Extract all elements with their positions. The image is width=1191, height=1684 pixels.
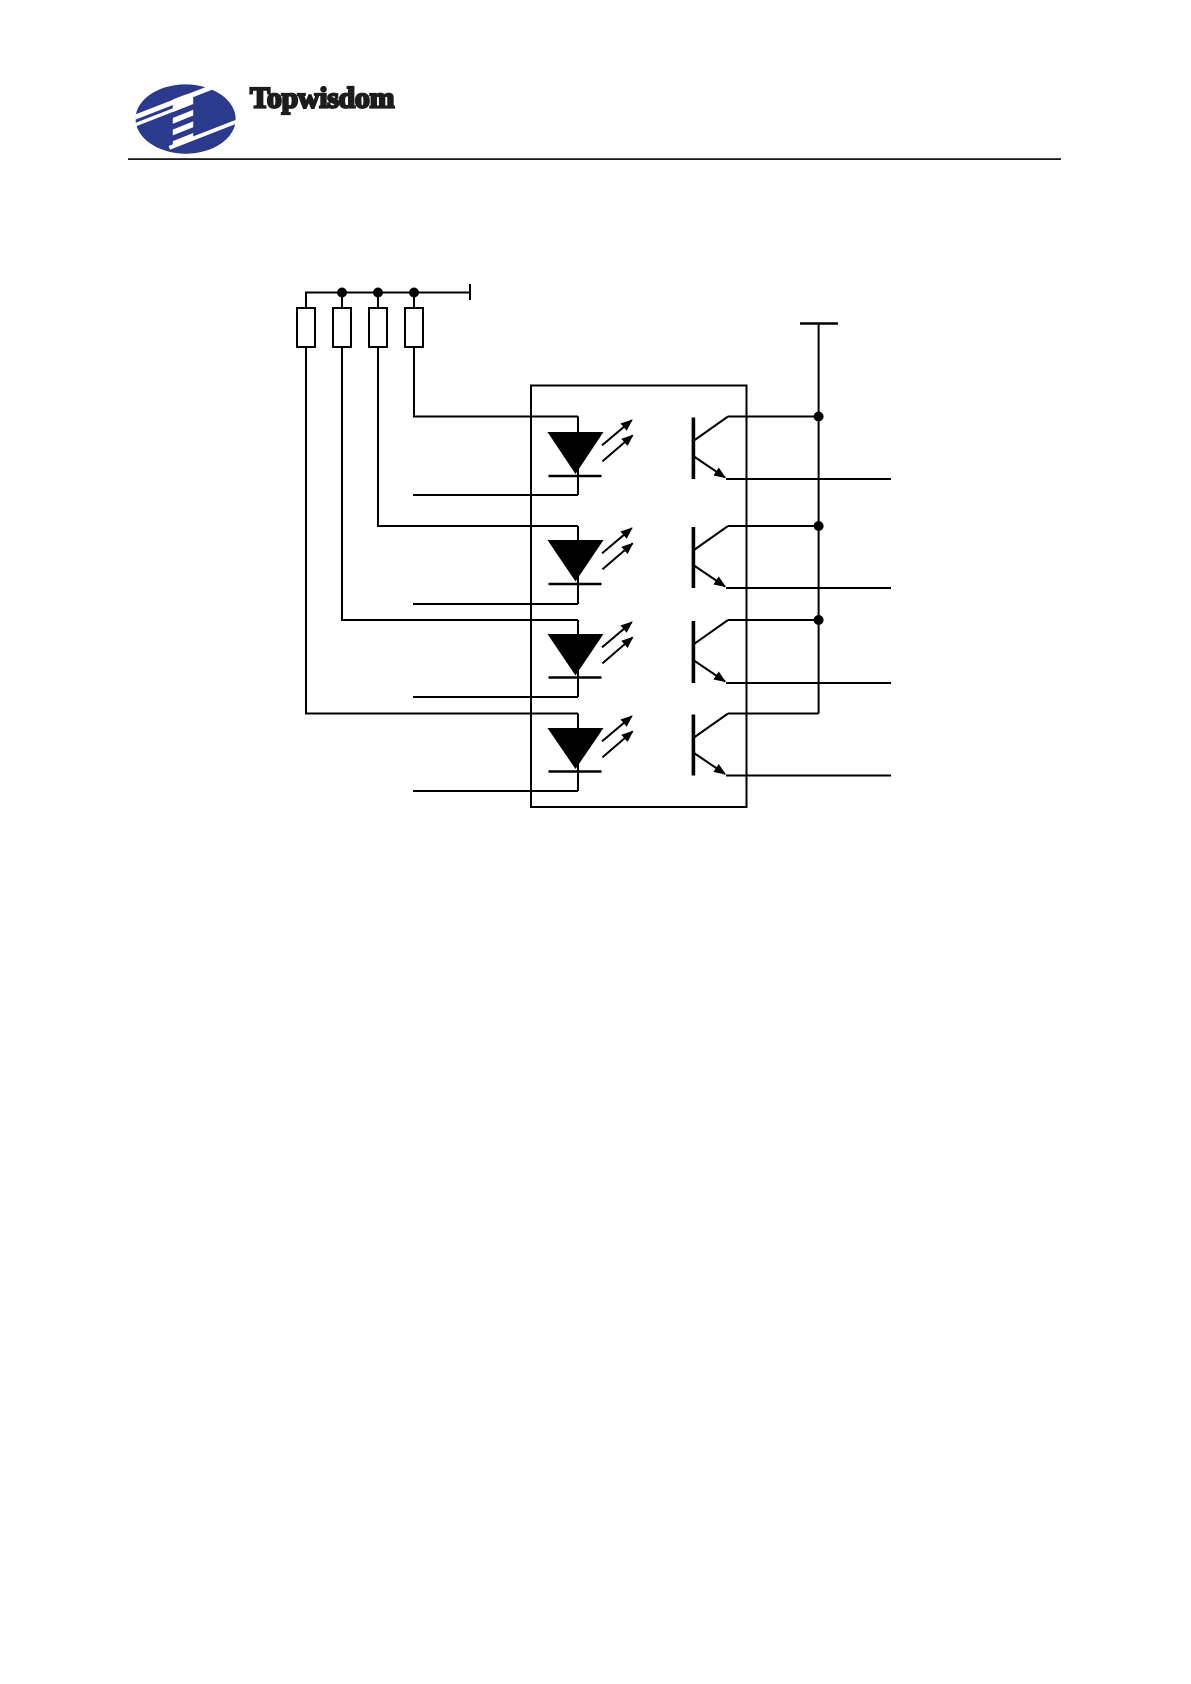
svg-text:Topwisdom: Topwisdom bbox=[250, 82, 394, 115]
